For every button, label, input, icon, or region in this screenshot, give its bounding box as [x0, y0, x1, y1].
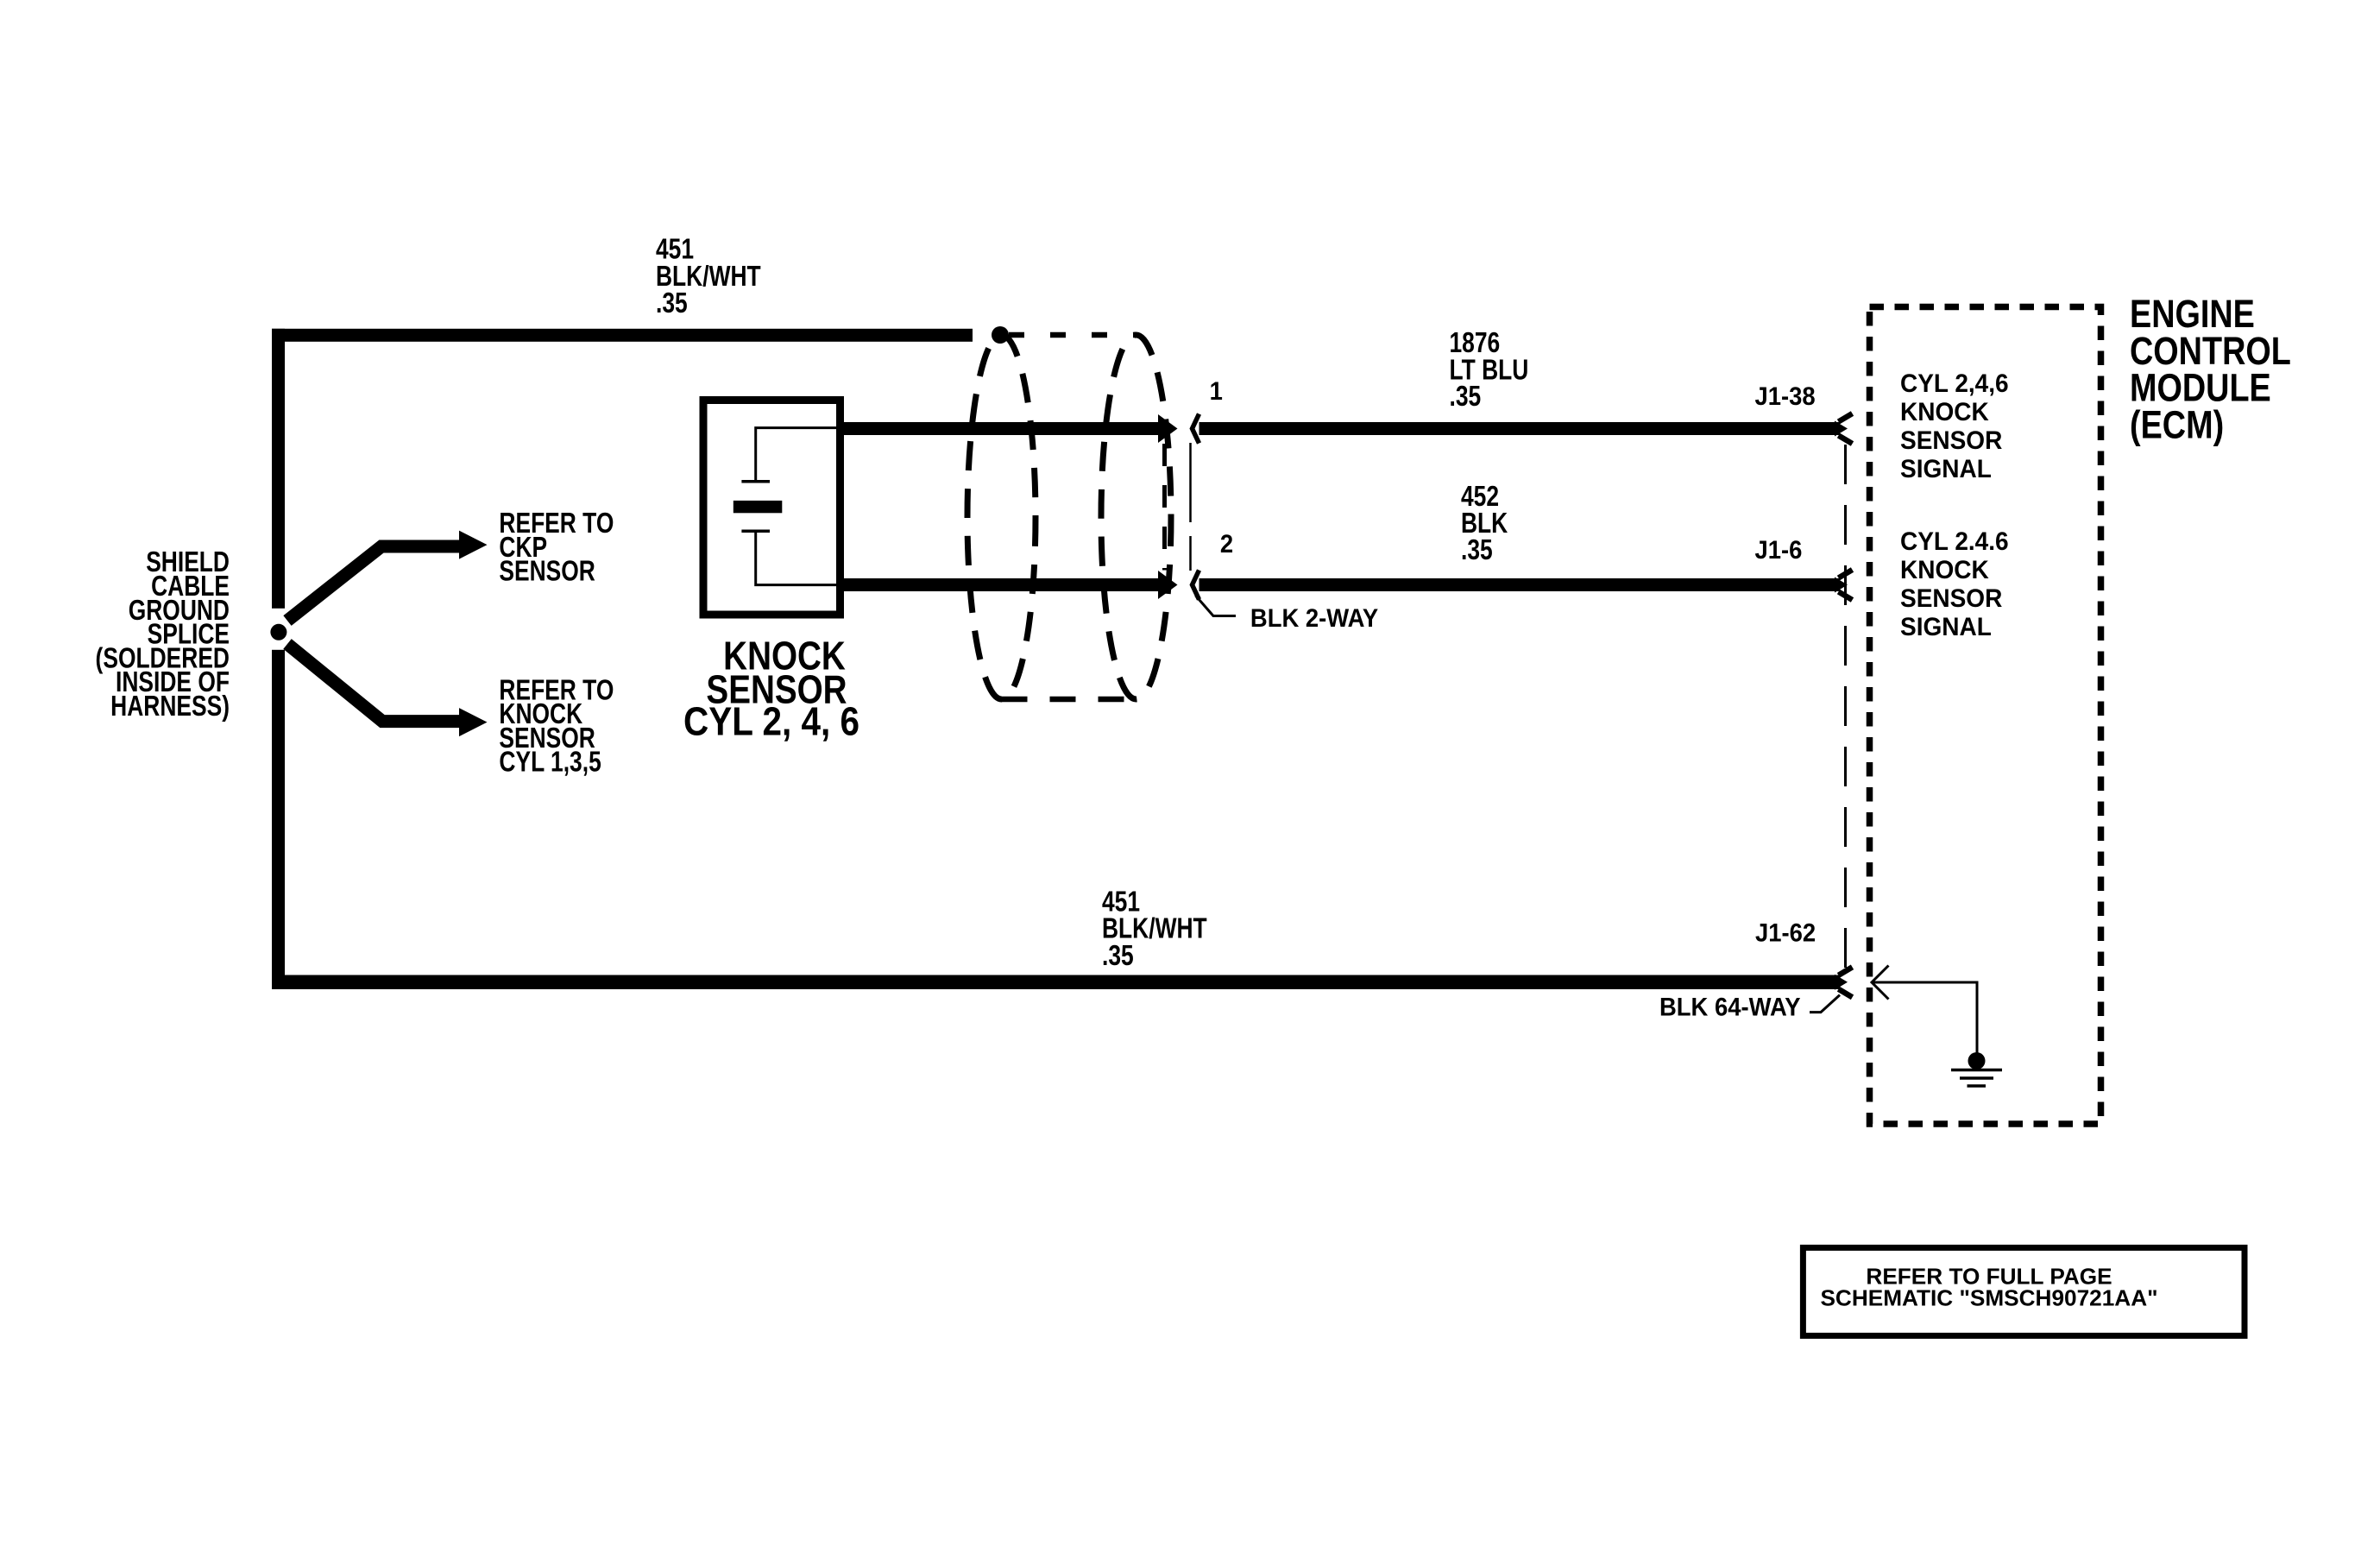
svg-text:J1-62: J1-62 — [1755, 919, 1816, 948]
svg-text:.35: .35 — [1450, 381, 1482, 412]
ECM connection J1-6 arrow — [1835, 570, 1853, 600]
ECM 64-way connector body dashed line — [1844, 445, 1847, 974]
svg-text:SENSOR: SENSOR — [1900, 584, 2003, 613]
2-way connector female body line — [1189, 443, 1192, 571]
capacitor bottom plate — [741, 530, 770, 533]
svg-text:.35: .35 — [1461, 534, 1493, 565]
piezo element top lead — [756, 428, 839, 480]
label: cyl 2.4.6 knock sensor signal (J1-6) — [1900, 527, 2009, 641]
svg-text:KNOCK: KNOCK — [1900, 398, 1989, 426]
label: engine control module (ECM) — [2130, 292, 2291, 446]
leader line BLK 64-WAY — [1810, 995, 1840, 1013]
svg-text:HARNESS): HARNESS) — [110, 691, 230, 722]
label: knock sensor cyl 2,4,6 — [683, 634, 859, 744]
wire 451 BLK/WHT top horizontal segment — [272, 329, 973, 342]
svg-text:CYL 2,4,6: CYL 2,4,6 — [1900, 369, 2009, 398]
piezo element bottom lead — [756, 533, 844, 585]
svg-text:J1-6: J1-6 — [1755, 536, 1803, 565]
shield left dashed ellipse — [967, 335, 1036, 699]
ground dot — [1968, 1052, 1986, 1070]
svg-text:.35: .35 — [656, 287, 688, 319]
2-way connector male body dashed line — [1162, 444, 1167, 571]
shield right dashed ellipse — [1101, 335, 1171, 699]
wire pin2 sensor to 2-way connector — [844, 578, 1162, 591]
svg-text:.35: .35 — [1102, 940, 1134, 971]
svg-text:CYL 2.4.6: CYL 2.4.6 — [1900, 527, 2009, 556]
svg-text:BLK 64-WAY: BLK 64-WAY — [1659, 993, 1801, 1021]
ECM connection J1-62 arrow — [1835, 967, 1853, 997]
wire pin1 sensor to 2-way connector — [844, 422, 1162, 435]
label: cyl 2,4,6 knock sensor signal (J1-38) — [1900, 369, 2009, 483]
shield dot (drain junction) — [992, 326, 1009, 344]
arrowhead to CKP sensor — [459, 531, 488, 559]
knock sensor box (sensor KS cyl 2,4,6) — [703, 401, 841, 615]
ground lead wire — [1872, 982, 1977, 1053]
ECM connection J1-38 arrow — [1835, 413, 1853, 444]
label: shield cable ground splice — [96, 546, 230, 722]
wire 1876 LT BLU pin1 to ECM — [1199, 422, 1841, 435]
leader line BLK 2-WAY — [1196, 596, 1237, 616]
capacitor middle plate (filled) — [734, 501, 783, 513]
svg-text:SENSOR: SENSOR — [499, 556, 595, 587]
2-way connector pin 1 male arrow — [1158, 414, 1178, 443]
svg-text:(ECM): (ECM) — [2130, 402, 2224, 446]
svg-text:1: 1 — [1210, 377, 1223, 406]
wire branch to CKP sensor — [287, 546, 461, 621]
svg-text:CYL 1,3,5: CYL 1,3,5 — [499, 747, 601, 778]
note box: refer to full page schematic — [1803, 1247, 2245, 1335]
label: wire 451 BLK/WHT .35 (bottom) — [1102, 887, 1207, 972]
shield top dashed line — [1009, 332, 1136, 338]
ECM module dashed box — [1870, 307, 2101, 1125]
svg-text:SENSOR: SENSOR — [1900, 426, 2003, 455]
ground symbol bars — [1951, 1070, 2002, 1087]
svg-text:J1-38: J1-38 — [1755, 382, 1816, 411]
label: wire 451 BLK/WHT .35 (top) — [656, 234, 761, 319]
svg-text:CYL 2, 4, 6: CYL 2, 4, 6 — [683, 700, 859, 744]
capacitor top plate — [741, 480, 770, 483]
wire 452 BLK pin2 to ECM — [1199, 578, 1841, 591]
wire 451 vertical segment lower — [272, 650, 285, 989]
svg-text:2: 2 — [1220, 530, 1233, 558]
label: wire 1876 LT BLU .35 — [1450, 327, 1529, 412]
ground lead open arrow at J1-62 — [1872, 966, 1889, 1000]
svg-text:SCHEMATIC "SMSCH90721AA": SCHEMATIC "SMSCH90721AA" — [1820, 1285, 2157, 1311]
2-way connector pin 2 male arrow — [1158, 571, 1178, 599]
2-way connector pin 2 female chevron — [1193, 571, 1199, 600]
splice dot (shield cable ground splice) — [270, 624, 286, 641]
wire 451 vertical segment upper — [272, 329, 285, 609]
svg-text:KNOCK: KNOCK — [1900, 556, 1989, 584]
svg-text:BLK 2-WAY: BLK 2-WAY — [1250, 604, 1378, 633]
2-way connector pin 1 female chevron — [1193, 414, 1199, 444]
svg-text:SIGNAL: SIGNAL — [1900, 455, 1992, 483]
wire 451 BLK/WHT bottom horizontal segment — [272, 975, 1840, 990]
label: wire 452 BLK .35 — [1461, 481, 1508, 565]
shield bottom dashed line — [1002, 697, 1136, 703]
label: refer to CKP sensor — [499, 508, 614, 587]
label: refer to knock sensor cyl 1,3,5 — [499, 675, 614, 779]
arrowhead to knock sensor cyl 1,3,5 — [459, 708, 488, 736]
wire branch to knock sensor cyl 1,3,5 — [287, 644, 461, 722]
svg-text:SIGNAL: SIGNAL — [1900, 613, 1992, 641]
